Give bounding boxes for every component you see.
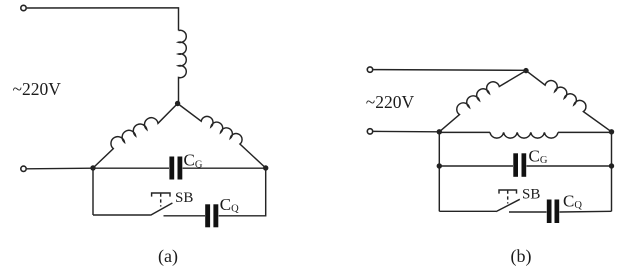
svg-text:~220V: ~220V <box>13 79 62 99</box>
wire lower branch right (a) <box>219 168 266 216</box>
capacitor CG (a) plates <box>169 157 174 180</box>
winding L5 (right diagonal, b) <box>526 71 612 132</box>
switch SB blade (b) <box>496 199 520 211</box>
wire left vertical of lower branch (a) <box>92 168 94 215</box>
node left corner (b) <box>437 129 442 134</box>
node right corner (b) <box>609 129 614 134</box>
svg-text:(b): (b) <box>511 246 532 267</box>
switch SB button cap (a) <box>152 193 170 197</box>
node CG rail right (b) <box>609 163 614 168</box>
wire CG rail left (b) <box>439 165 513 167</box>
winding L6 (horizontal coil, b) <box>490 132 558 138</box>
wire bottom side left of CG (a) <box>93 167 169 169</box>
terminal bottom-left (b) <box>367 129 372 134</box>
node right corner (a) <box>263 165 268 170</box>
wire bottom rail right (b) <box>560 210 612 213</box>
terminal bottom-left (a) <box>21 166 26 171</box>
node CG rail left (b) <box>437 163 442 168</box>
svg-text:CQ: CQ <box>220 195 239 215</box>
wire bottom rail left (b) <box>439 210 496 212</box>
switch SB blade (a) <box>151 203 173 215</box>
svg-text:SB: SB <box>522 187 540 203</box>
wire bottom terminal to left corner (b) <box>373 130 439 132</box>
node left corner (a) <box>90 165 95 170</box>
wire top from terminal to apex (b) <box>373 69 526 72</box>
wire bottom side right of coil (b) <box>558 131 612 133</box>
winding L1 (vertical coil, a) <box>179 30 187 103</box>
svg-text:CG: CG <box>184 151 203 171</box>
wire bottom side right of CG (a) <box>183 167 266 169</box>
wire left vertical (b) <box>438 132 440 212</box>
svg-text:~220V: ~220V <box>366 92 415 112</box>
winding L2 (left diagonal, a) <box>93 104 178 169</box>
switch SB stem dashed (b) <box>507 191 509 204</box>
wire bottom rail middle (b) <box>509 211 547 213</box>
wire bottom side left of coil (b) <box>439 131 490 133</box>
winding L3 (right diagonal, a) <box>178 104 266 169</box>
switch SB stem dashed (a) <box>160 194 162 207</box>
capacitor CG (b) plates <box>513 153 518 177</box>
wire CG rail right (b) <box>527 165 612 167</box>
svg-text:(a): (a) <box>158 246 178 267</box>
terminal top-left (b) <box>367 67 372 72</box>
svg-text:CQ: CQ <box>563 191 582 211</box>
switch SB button cap (b) <box>499 190 517 194</box>
node apex (a) <box>175 101 180 106</box>
winding L4 (left diagonal, b) <box>439 71 526 132</box>
wire lower branch middle (a) <box>164 215 206 217</box>
wire top from terminal to corner <box>27 8 179 31</box>
wire lower branch left (a) <box>93 214 151 216</box>
wire right vertical (b) <box>611 132 613 212</box>
capacitor CQ (b) plates <box>547 200 552 224</box>
node apex (b) <box>523 68 528 73</box>
terminal top-left (a) <box>21 5 26 10</box>
svg-text:CG: CG <box>529 146 548 166</box>
wire terminal to left corner (a) <box>27 167 93 170</box>
svg-text:SB: SB <box>175 190 193 206</box>
capacitor CQ (a) plates <box>205 204 210 227</box>
